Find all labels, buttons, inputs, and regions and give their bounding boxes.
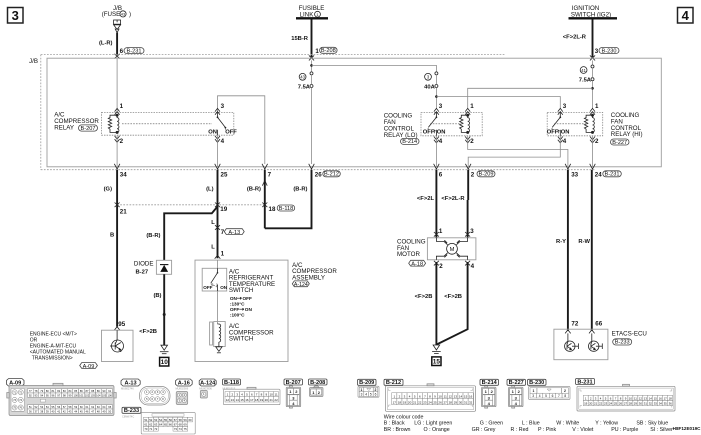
wire into refrigerant temperature switch [217, 260, 219, 268]
wire (L-R) fuse to B-231 pin 6 [116, 33, 118, 55]
pin 3 B-230 label [595, 48, 619, 55]
wire <F>2B motor pin 2 to ground 15 [435, 262, 437, 345]
svg-text:1: 1 [595, 103, 599, 110]
svg-text:60: 60 [188, 418, 192, 422]
connector B-214 [480, 379, 499, 385]
connector B-233 [122, 407, 141, 413]
svg-text:7: 7 [558, 394, 560, 398]
svg-text:102: 102 [85, 393, 90, 397]
fuse 3 40A [424, 72, 438, 91]
relay B-227 switch (OFF left, ON right) [547, 112, 570, 135]
svg-text:3: 3 [12, 8, 19, 23]
relay B-227 actuation dashed link [554, 123, 588, 125]
transistor symbol inside ECU [110, 330, 124, 352]
svg-text:10: 10 [629, 396, 633, 400]
svg-text:B-233: B-233 [124, 408, 139, 414]
engine ECU box [102, 330, 134, 361]
svg-text:OFF: OFF [243, 296, 253, 301]
svg-text:56: 56 [169, 418, 173, 422]
svg-text:B-118: B-118 [224, 380, 239, 386]
svg-text:<F>2L-R: <F>2L-R [441, 196, 465, 202]
wire relay LO coil pin 2 over to pin 33 [468, 136, 568, 167]
connector B-118 [223, 379, 241, 385]
svg-text:13: 13 [644, 396, 648, 400]
intermediate connector dashed row 21/19/18 [117, 204, 265, 206]
svg-text:3: 3 [595, 48, 599, 55]
FUSIBLE LINK header [296, 5, 328, 18]
svg-text:34: 34 [120, 171, 127, 178]
svg-text:OFF: OFF [230, 307, 240, 312]
wire bus to 40A fuse [312, 65, 437, 71]
svg-text:B-27: B-27 [136, 269, 149, 275]
svg-text:17: 17 [393, 400, 397, 404]
svg-text:20: 20 [408, 400, 412, 404]
svg-text:ETACS-ECU: ETACS-ECU [612, 331, 647, 338]
svg-text:L: L [211, 220, 215, 226]
svg-text:3: 3 [361, 393, 363, 397]
svg-text:14: 14 [459, 394, 463, 398]
svg-text:SB : Sky blue: SB : Sky blue [636, 421, 668, 427]
svg-text:L : Blue: L : Blue [522, 421, 540, 427]
A/C compressor switch (clutch coil) [210, 322, 226, 353]
svg-text:SWITCH: SWITCH [229, 335, 253, 342]
svg-text:32: 32 [469, 400, 473, 404]
ETACS-ECU label [612, 331, 647, 346]
svg-text:43: 43 [300, 75, 305, 80]
svg-text:12: 12 [226, 398, 230, 402]
svg-text:30: 30 [639, 402, 643, 406]
svg-text:1: 1 [315, 48, 319, 55]
crossing pin 19 [215, 203, 220, 208]
ETACS driver transistor for pin 66 [589, 333, 603, 351]
wire relay HI pin 4 over to pin 2 B-209 [468, 136, 560, 167]
svg-text:19: 19 [220, 206, 227, 213]
svg-text:O : Orange: O : Orange [424, 427, 450, 433]
relay B-214 actuation dashed link [430, 123, 463, 125]
svg-text:(L): (L) [206, 187, 213, 193]
svg-text:1: 1 [439, 228, 443, 235]
wire R-W pin 24 down to ETACS pin 66 [591, 170, 593, 331]
svg-text:B-230: B-230 [602, 48, 617, 54]
svg-text:13: 13 [231, 398, 235, 402]
svg-text:58: 58 [179, 418, 183, 422]
svg-text:101: 101 [79, 393, 84, 397]
svg-text:26: 26 [315, 171, 322, 178]
svg-text:B-231: B-231 [577, 379, 592, 385]
connector crossing at relay box top (B-208) [309, 55, 314, 60]
ETACS entry chevrons [565, 330, 595, 334]
svg-text:R-W: R-W [578, 239, 590, 245]
wire R-Y pin 33 down to ETACS pin 72 [567, 170, 569, 331]
J/B (FUSE 43) header [102, 5, 131, 18]
ground point box 10 [160, 357, 169, 366]
relay B-214 switch (OFF left, ON right) [423, 112, 446, 135]
svg-text:ON: ON [561, 129, 570, 135]
svg-text:41: 41 [581, 68, 586, 73]
cooling fan motor box [427, 238, 476, 260]
svg-text:23: 23 [604, 402, 608, 406]
DIODE B-27 label [134, 260, 154, 275]
svg-text:1: 1 [361, 388, 363, 392]
relay B-207 pin labels [120, 103, 225, 145]
svg-text:24: 24 [595, 171, 602, 178]
A/C compressor switch label [229, 323, 274, 342]
inline connector A-13 pin 7 [215, 225, 220, 230]
svg-text:B-212: B-212 [324, 172, 339, 178]
svg-text:6: 6 [375, 393, 377, 397]
oval label B-231 at pin 24 [603, 171, 622, 178]
svg-text:33: 33 [571, 171, 578, 178]
connector B-230 [528, 379, 547, 385]
ground symbol 10 [160, 345, 169, 354]
svg-text:11: 11 [444, 394, 447, 398]
node junction on ground wire [163, 313, 166, 316]
pin 6 B-231 label [120, 48, 144, 56]
svg-text:57: 57 [174, 418, 178, 422]
svg-text:ON: ON [437, 129, 446, 135]
svg-text:51: 51 [144, 418, 148, 422]
svg-text:P : Pink: P : Pink [538, 427, 557, 433]
svg-text:<F>2B: <F>2B [444, 294, 462, 300]
svg-text:BR : Brown: BR : Brown [384, 427, 411, 433]
svg-text:10: 10 [438, 394, 442, 398]
svg-text:RELAY: RELAY [54, 125, 74, 132]
svg-text:B-231: B-231 [605, 172, 620, 178]
svg-text:2: 2 [212, 283, 214, 287]
svg-text:35: 35 [664, 402, 668, 406]
svg-text:3: 3 [470, 228, 474, 235]
svg-text:L: L [211, 245, 215, 251]
fan motor pin 1 and 3 connector crossings [434, 232, 470, 237]
relay B-214 entry chevrons [434, 108, 470, 142]
svg-text:18: 18 [255, 398, 259, 402]
svg-text:22: 22 [274, 398, 278, 402]
svg-text:OFF: OFF [423, 129, 435, 135]
wire (G) pin 34 down to ECU pin 95 [116, 170, 118, 327]
svg-text:3: 3 [221, 103, 225, 110]
svg-text:15: 15 [654, 396, 658, 400]
svg-text:33: 33 [654, 402, 658, 406]
svg-text:53: 53 [154, 418, 158, 422]
svg-text:Y : Yellow: Y : Yellow [595, 421, 618, 427]
svg-text:R-Y: R-Y [556, 239, 566, 245]
pin 1 B-208 label [315, 47, 337, 55]
svg-text:4: 4 [563, 138, 567, 145]
svg-text:21: 21 [594, 402, 598, 406]
svg-text:2: 2 [470, 138, 474, 145]
diode B-27 box and symbol [156, 260, 171, 274]
svg-text:3: 3 [439, 103, 443, 110]
wire <F>2L pin 6 down to fan motor pin 1 [435, 170, 437, 238]
svg-text:63: 63 [154, 423, 158, 427]
current arrow on pin 7 wire [262, 181, 267, 186]
svg-text:(G): (G) [104, 187, 112, 193]
wire <F>2L-R pin 2 down to fan motor pin 3 [467, 170, 469, 200]
wire relay LO pin 4 down to boundary [435, 136, 437, 167]
svg-text:18: 18 [269, 206, 276, 213]
svg-text:MU802906: MU802906 [176, 386, 189, 390]
svg-text:4: 4 [439, 138, 443, 145]
svg-text:ON: ON [230, 296, 238, 301]
svg-text:100: 100 [74, 393, 79, 397]
svg-text:20: 20 [265, 398, 269, 402]
svg-text:W : White: W : White [556, 421, 579, 427]
svg-text:10: 10 [161, 359, 169, 366]
J/B dashed outline [29, 55, 594, 170]
svg-text:SWITCH: SWITCH [229, 287, 253, 294]
svg-text:66: 66 [595, 320, 602, 327]
relay B-214 coil with parallel resistor [460, 114, 470, 133]
connector crossing at J/B boundary [115, 54, 120, 59]
svg-text:15: 15 [464, 394, 468, 398]
temperature thresholds note [230, 296, 253, 318]
cooling fan control relay HI label [611, 112, 643, 146]
svg-text:106: 106 [108, 393, 113, 397]
svg-text:B-230: B-230 [529, 380, 544, 386]
svg-text:10: 10 [270, 393, 274, 397]
svg-text:B-118: B-118 [279, 206, 294, 212]
svg-text:61: 61 [144, 423, 148, 427]
svg-text:104: 104 [96, 393, 101, 397]
svg-text:2: 2 [120, 138, 124, 145]
svg-text:2: 2 [564, 389, 566, 393]
svg-text:(FUSE: (FUSE [102, 11, 121, 18]
svg-text:31: 31 [644, 402, 648, 406]
svg-text:73: 73 [174, 427, 178, 431]
svg-text:GR : Grey: GR : Grey [472, 427, 496, 433]
svg-text:B-227: B-227 [509, 380, 524, 386]
svg-text:B-227: B-227 [612, 140, 627, 146]
connector A-09 (engine ECU) [7, 379, 117, 416]
relay B-207 entry chevrons pins 1,3 (top) and 2,4 (bottom) [115, 108, 220, 142]
svg-text:28: 28 [449, 400, 453, 404]
svg-text:15: 15 [240, 398, 244, 402]
boundary pin labels row [120, 171, 602, 178]
svg-text:RELAY (LO): RELAY (LO) [384, 132, 418, 139]
ETACS-ECU box [554, 329, 608, 360]
svg-text:25: 25 [221, 171, 228, 178]
svg-text:6: 6 [552, 394, 554, 398]
svg-text:11: 11 [275, 393, 278, 397]
svg-text:43: 43 [121, 12, 126, 17]
svg-text:(L-R): (L-R) [99, 41, 113, 47]
svg-text:15: 15 [433, 359, 441, 366]
svg-text:22: 22 [418, 400, 422, 404]
svg-text:22: 22 [599, 402, 603, 406]
svg-text:18: 18 [398, 400, 402, 404]
svg-text:68: 68 [179, 423, 183, 427]
node: fuse 41 junction feeding both fan relay coils [591, 81, 594, 109]
svg-text:40A: 40A [424, 85, 435, 91]
svg-text:B: B [110, 233, 114, 239]
svg-text:A-13: A-13 [228, 230, 240, 236]
svg-text:19: 19 [260, 398, 264, 402]
svg-text:3: 3 [563, 103, 567, 110]
wire (B) diode to ground 10 [163, 274, 165, 345]
wire relay HI coil pin 2 down to pin 24 [592, 136, 594, 167]
diode branch wire (B-R) from pin 19 [164, 207, 217, 261]
svg-text:B-214: B-214 [482, 380, 498, 386]
svg-text:ON: ON [220, 285, 228, 290]
svg-text:OFF: OFF [225, 129, 237, 135]
svg-text:<F>2L: <F>2L [417, 196, 435, 202]
connector A-16 [176, 379, 193, 386]
svg-text:105: 105 [102, 393, 107, 397]
fan motor pin 2 and 4 connector crossings [434, 261, 470, 266]
crossing pin 18 B-118 [262, 203, 267, 208]
svg-text:52: 52 [149, 418, 153, 422]
svg-text:H8F12E019C: H8F12E019C [673, 426, 701, 431]
connector B-212 [384, 379, 403, 385]
svg-text:7.5A: 7.5A [579, 77, 592, 83]
svg-text:74: 74 [179, 427, 183, 431]
wire B-231 pin6 down to A/C relay pin 1 [116, 59, 118, 113]
wire 15B-R fusible link to B-208 [311, 20, 313, 58]
svg-text:B-207: B-207 [286, 380, 301, 386]
svg-text:ON: ON [245, 307, 253, 312]
svg-text:29: 29 [634, 402, 638, 406]
node: 40A fuse junction feeding both fan relay switches [435, 88, 438, 110]
svg-text:B-212: B-212 [386, 380, 401, 386]
relay B-214 pin labels [439, 103, 474, 145]
A/C compressor assembly label [292, 262, 337, 288]
ground point box 15 [432, 357, 441, 366]
svg-text:54: 54 [159, 418, 163, 422]
svg-text:6: 6 [120, 48, 124, 55]
svg-text:6: 6 [439, 171, 443, 178]
svg-text:26: 26 [619, 402, 623, 406]
svg-text:70: 70 [144, 427, 148, 431]
svg-text:B-214: B-214 [402, 139, 417, 145]
relay B-227 coil with parallel resistor [584, 114, 594, 133]
svg-text:34: 34 [659, 402, 663, 406]
svg-text:65: 65 [164, 423, 168, 427]
svg-text:59: 59 [184, 418, 188, 422]
wire fuse41 to relay LO coil pin 1 [468, 88, 593, 109]
fuse 41 7.5A [579, 60, 594, 83]
svg-text:(B-R): (B-R) [293, 187, 307, 193]
svg-text:13: 13 [454, 394, 458, 398]
svg-text:36: 36 [669, 402, 673, 406]
svg-text:67: 67 [174, 423, 178, 427]
svg-text:A-18: A-18 [411, 262, 423, 268]
svg-text:11: 11 [634, 396, 637, 400]
svg-text:LG : Light green: LG : Light green [414, 421, 452, 427]
svg-text:CBW674C: CBW674C [122, 415, 134, 419]
svg-text:<F>2L-R: <F>2L-R [563, 35, 587, 41]
svg-text:16: 16 [469, 394, 473, 398]
connector crossing at relay box top (B-230) [590, 55, 595, 60]
svg-text:V : Violet: V : Violet [572, 427, 594, 433]
svg-text:64: 64 [159, 423, 163, 427]
relay B-214 dashed box [421, 112, 482, 135]
svg-text:20: 20 [589, 402, 593, 406]
relay B-207 dashed box [102, 112, 234, 135]
svg-text:17: 17 [250, 398, 254, 402]
svg-text:ASSEMBLY: ASSEMBLY [292, 274, 325, 281]
svg-text:1: 1 [533, 389, 535, 393]
svg-text:19: 19 [584, 402, 588, 406]
svg-text:5: 5 [545, 394, 547, 398]
svg-text:1: 1 [221, 250, 225, 257]
svg-text:27: 27 [444, 400, 448, 404]
svg-text:18: 18 [669, 396, 673, 400]
svg-text:75: 75 [184, 427, 188, 431]
svg-text:5: 5 [370, 393, 372, 397]
svg-text:12: 12 [639, 396, 643, 400]
svg-text:72: 72 [154, 427, 158, 431]
svg-text:17: 17 [664, 396, 668, 400]
wire temp switch to compressor clutch coil [217, 291, 219, 324]
boundary crossing arrows at J/B bottom row [114, 164, 595, 169]
svg-text:MU802746: MU802746 [121, 386, 134, 390]
wire colour code legend [384, 414, 673, 432]
svg-text:3: 3 [532, 394, 534, 398]
svg-text:66: 66 [169, 423, 173, 427]
svg-text:): ) [129, 11, 131, 18]
cooling fan control relay LO label [384, 113, 419, 146]
relay B-207 actuation dashed link [122, 123, 212, 125]
fuse 43 7.5A [298, 72, 313, 91]
connector A-13 [121, 379, 140, 386]
svg-text:2: 2 [471, 171, 475, 178]
connector B-231 [576, 379, 595, 385]
page number box 4 [678, 8, 694, 24]
svg-text:69: 69 [184, 423, 188, 427]
wire <F>2B motor pin 4 joining ground 15 [436, 262, 467, 345]
svg-text:4: 4 [682, 8, 690, 23]
svg-text:7: 7 [221, 229, 225, 236]
svg-text:J/B: J/B [29, 58, 38, 65]
svg-text:<F>2B: <F>2B [139, 329, 157, 335]
svg-text:26: 26 [438, 400, 442, 404]
svg-text::130°C: :130°C [230, 302, 245, 307]
svg-text:27: 27 [624, 402, 628, 406]
J/B output connector symbol [114, 20, 121, 33]
svg-text:2: 2 [595, 138, 599, 145]
svg-text:SI : Silver: SI : Silver [650, 427, 673, 433]
temperature switch contacts [203, 268, 227, 291]
svg-text:(B-R): (B-R) [146, 233, 160, 239]
ETACS driver transistor for pin 72 [565, 333, 579, 351]
svg-text:B-208: B-208 [321, 48, 336, 54]
svg-text:1: 1 [120, 103, 124, 110]
svg-text:72: 72 [571, 320, 578, 327]
svg-text:2: 2 [439, 263, 443, 270]
svg-text:B-233: B-233 [615, 340, 630, 346]
svg-text:MOTOR: MOTOR [397, 251, 420, 258]
page number box 3 [8, 8, 24, 24]
relay B-227 entry chevrons [558, 108, 595, 142]
svg-text:B-231: B-231 [127, 48, 142, 54]
relay B-207 switch (ON left, OFF right) [208, 112, 237, 135]
cooling fan motor label [397, 238, 426, 267]
svg-text:31: 31 [464, 400, 468, 404]
svg-text:103: 103 [91, 393, 96, 397]
A/C compressor assembly box [195, 260, 288, 361]
svg-text:25: 25 [614, 402, 618, 406]
crossing pin 21 [115, 203, 120, 208]
A/C refrigerant temperature switch box [202, 268, 227, 291]
svg-text:21: 21 [120, 209, 127, 216]
svg-text:RELAY (HI): RELAY (HI) [611, 131, 643, 138]
svg-text:62: 62 [149, 423, 153, 427]
svg-text:ON: ON [208, 129, 217, 135]
svg-text:<F>2B: <F>2B [415, 294, 433, 300]
svg-text:55: 55 [164, 418, 168, 422]
svg-text:16: 16 [245, 398, 249, 402]
svg-text:30: 30 [459, 400, 463, 404]
